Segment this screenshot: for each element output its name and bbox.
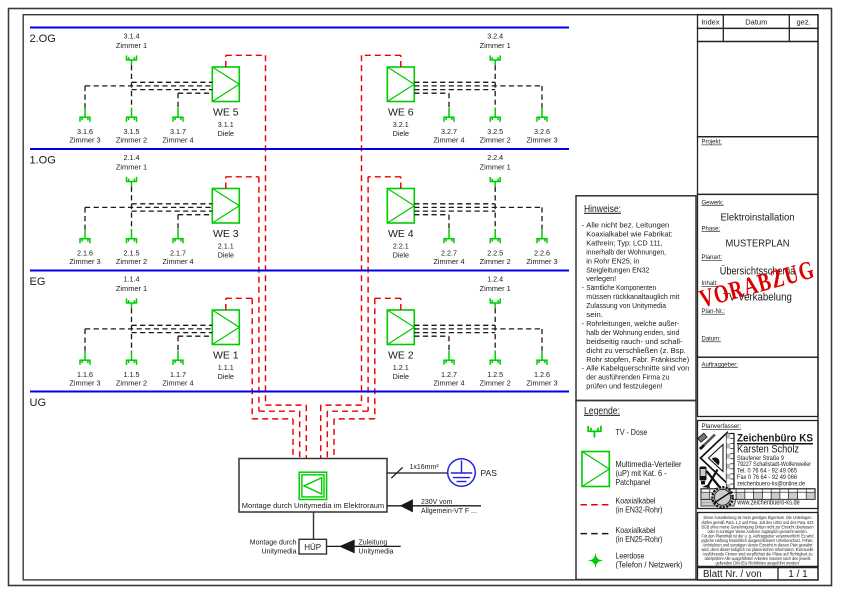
- svg-text:zeichenbuero-ks@online.de: zeichenbuero-ks@online.de: [737, 481, 805, 488]
- svg-text:Zimmer 4: Zimmer 4: [433, 379, 464, 388]
- svg-text:Alle Kabelquerschnitte sind vo: Alle Kabelquerschnitte sind von: [586, 364, 689, 373]
- svg-text:Datum:: Datum:: [702, 337, 722, 343]
- svg-text:Datum: Datum: [745, 18, 767, 27]
- svg-text:Hinweise:: Hinweise:: [584, 203, 621, 215]
- svg-text:Legende:: Legende:: [584, 405, 620, 417]
- svg-text:1.2.1: 1.2.1: [393, 363, 409, 372]
- svg-text:WE 4: WE 4: [388, 228, 414, 240]
- svg-text:2.1.4: 2.1.4: [124, 153, 140, 162]
- svg-text:WE 2: WE 2: [388, 349, 414, 361]
- svg-text:Unitymedia: Unitymedia: [359, 549, 394, 556]
- svg-text:Zimmer 1: Zimmer 1: [480, 284, 511, 293]
- svg-text:Zimmer 4: Zimmer 4: [162, 136, 193, 145]
- svg-text:Phase:: Phase:: [702, 226, 721, 232]
- svg-text:Projekt:: Projekt:: [702, 140, 723, 146]
- svg-text:2.OG: 2.OG: [30, 33, 56, 45]
- svg-text:Diele: Diele: [218, 372, 234, 381]
- svg-text:Zimmer 1: Zimmer 1: [480, 163, 511, 172]
- svg-text:EG: EG: [30, 276, 46, 288]
- svg-text:beidseitig rauch- und schall-: beidseitig rauch- und schall-: [586, 337, 683, 346]
- svg-text:1.1.4: 1.1.4: [124, 274, 140, 283]
- svg-text:Zimmer 2: Zimmer 2: [116, 136, 147, 145]
- svg-text:verlegen!: verlegen!: [586, 274, 616, 283]
- svg-text:Zeichenbüro KS: Zeichenbüro KS: [737, 432, 813, 444]
- svg-text:Zimmer 2: Zimmer 2: [480, 136, 511, 145]
- svg-text:Zimmer 2: Zimmer 2: [116, 379, 147, 388]
- svg-text:Zimmer 4: Zimmer 4: [162, 257, 193, 266]
- svg-text:Zimmer 3: Zimmer 3: [69, 136, 100, 145]
- svg-text:Zimmer 1: Zimmer 1: [116, 163, 147, 172]
- svg-text:innerhalb der Wohnungen,: innerhalb der Wohnungen,: [586, 247, 666, 256]
- svg-text:Auftraggeber:: Auftraggeber:: [702, 362, 739, 368]
- svg-text:3.2.1: 3.2.1: [393, 120, 409, 129]
- svg-text:TV - Dose: TV - Dose: [616, 427, 648, 437]
- svg-text:Koaxialkabel wie Fabrikat:: Koaxialkabel wie Fabrikat:: [586, 229, 672, 238]
- svg-text:Zulassung von Unitymedia: Zulassung von Unitymedia: [586, 301, 666, 310]
- svg-text:sein.: sein.: [586, 310, 603, 319]
- svg-text:Unitymedia: Unitymedia: [261, 548, 296, 555]
- svg-text:2.2.4: 2.2.4: [487, 153, 503, 162]
- svg-text:Patchpanel: Patchpanel: [616, 477, 651, 487]
- svg-text:Allgemein-VT F ...: Allgemein-VT F ...: [421, 508, 477, 515]
- svg-text:Zimmer 3: Zimmer 3: [69, 257, 100, 266]
- svg-text:Planart:: Planart:: [702, 255, 723, 261]
- svg-text:1 / 1: 1 / 1: [788, 569, 808, 580]
- svg-text:Montage durch Unitymedia im El: Montage durch Unitymedia im Elektroraum: [242, 501, 384, 510]
- svg-text:Blatt Nr. / von: Blatt Nr. / von: [703, 569, 762, 580]
- svg-text:1.1.1: 1.1.1: [218, 363, 234, 372]
- svg-text:Elektroinstallation: Elektroinstallation: [721, 212, 795, 224]
- svg-text:Planverfasser:: Planverfasser:: [702, 423, 742, 430]
- svg-text:3.1.4: 3.1.4: [124, 31, 140, 40]
- svg-text:Steigleitungen EN32: Steigleitungen EN32: [586, 265, 649, 274]
- svg-text:Rohr stopfen, Fabr. Fränkische: Rohr stopfen, Fabr. Fränkische): [586, 355, 689, 364]
- svg-text:prüfen und festzulegen!: prüfen und festzulegen!: [586, 382, 662, 391]
- svg-text:Zimmer 4: Zimmer 4: [433, 136, 464, 145]
- svg-text:2.2.1: 2.2.1: [393, 241, 409, 250]
- svg-text:halb der Wohnung enden, sind: halb der Wohnung enden, sind: [586, 328, 679, 337]
- svg-text:müssen rückkanaltauglich mit: müssen rückkanaltauglich mit: [586, 292, 679, 301]
- svg-text:geltenden DIN-/EU-Richtlinien: geltenden DIN-/EU-Richtlinien ausgeführt…: [716, 561, 800, 566]
- svg-text:Zimmer 3: Zimmer 3: [526, 379, 557, 388]
- svg-text:2.1.1: 2.1.1: [218, 241, 234, 250]
- svg-text:230V vom: 230V vom: [421, 499, 453, 506]
- svg-text:PAS: PAS: [481, 468, 498, 478]
- svg-text:Diele: Diele: [393, 129, 409, 138]
- svg-text:HÜP: HÜP: [304, 543, 321, 552]
- svg-text:gez.: gez.: [797, 18, 811, 27]
- svg-text:Gewerk:: Gewerk:: [702, 200, 725, 206]
- svg-text:Zuleitung: Zuleitung: [359, 539, 388, 546]
- svg-text:Zimmer 1: Zimmer 1: [480, 41, 511, 50]
- svg-text:(in EN32-Rohr): (in EN32-Rohr): [616, 504, 663, 514]
- svg-text:Zimmer 2: Zimmer 2: [116, 257, 147, 266]
- svg-text:www.zeichenbuero-ks.de: www.zeichenbuero-ks.de: [736, 499, 799, 506]
- svg-text:Zimmer 1: Zimmer 1: [116, 41, 147, 50]
- svg-text:Index: Index: [701, 18, 720, 27]
- svg-text:Diele: Diele: [218, 250, 234, 259]
- svg-text:Zimmer 3: Zimmer 3: [69, 379, 100, 388]
- svg-text:Karsten Scholz: Karsten Scholz: [737, 444, 799, 456]
- svg-text:dicht zu verschließen (z. Bsp.: dicht zu verschließen (z. Bsp.: [586, 346, 686, 355]
- svg-text:Sämtliche Komponenten: Sämtliche Komponenten: [586, 283, 656, 292]
- svg-text:Zimmer 4: Zimmer 4: [162, 379, 193, 388]
- svg-text:in Rohr EN25, in: in Rohr EN25, in: [586, 256, 639, 265]
- svg-text:WE 6: WE 6: [388, 106, 414, 118]
- svg-text:UG: UG: [30, 397, 47, 409]
- svg-text:(Telefon / Netzwerk): (Telefon / Netzwerk): [616, 560, 683, 570]
- svg-text:1.OG: 1.OG: [30, 155, 56, 167]
- svg-text:Zimmer 2: Zimmer 2: [480, 379, 511, 388]
- svg-text:MUSTERPLAN: MUSTERPLAN: [726, 239, 790, 250]
- svg-text:1x16mm²: 1x16mm²: [410, 464, 440, 471]
- svg-text:Diele: Diele: [393, 250, 409, 259]
- svg-text:Alle nicht bez. Leitungen: Alle nicht bez. Leitungen: [586, 221, 669, 230]
- svg-text:Zimmer 1: Zimmer 1: [116, 284, 147, 293]
- svg-text:Zimmer 3: Zimmer 3: [526, 136, 557, 145]
- svg-text:WE 5: WE 5: [213, 106, 239, 118]
- svg-text:Montage durch: Montage durch: [250, 539, 297, 546]
- svg-text:Zimmer 2: Zimmer 2: [480, 257, 511, 266]
- svg-text:WE 1: WE 1: [213, 349, 239, 361]
- svg-text:3.1.1: 3.1.1: [218, 120, 234, 129]
- svg-text:Rohrleitungen, welche außer-: Rohrleitungen, welche außer-: [586, 319, 680, 328]
- svg-text:Kathrein; Typ: LCD 111,: Kathrein; Typ: LCD 111,: [586, 238, 662, 247]
- svg-text:Diele: Diele: [393, 372, 409, 381]
- svg-text:Zimmer 3: Zimmer 3: [526, 257, 557, 266]
- svg-text:Diele: Diele: [218, 129, 234, 138]
- svg-text:Zimmer 4: Zimmer 4: [433, 257, 464, 266]
- svg-text:1.2.4: 1.2.4: [487, 274, 503, 283]
- svg-text:WE 3: WE 3: [213, 228, 239, 240]
- svg-text:(in EN25-Rohr): (in EN25-Rohr): [616, 534, 663, 544]
- svg-text:3.2.4: 3.2.4: [487, 31, 503, 40]
- svg-text:der ausführenden Firma zu: der ausführenden Firma zu: [586, 373, 669, 382]
